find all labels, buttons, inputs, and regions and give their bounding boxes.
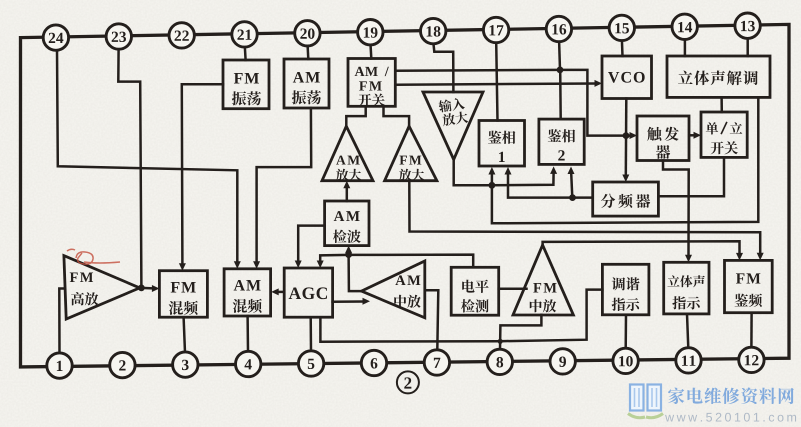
block phase detector 2 鉴相2 <box>539 119 584 164</box>
wire AGC to AM mixer <box>278 291 285 294</box>
junction dot J1 phase-detector common node <box>489 182 496 189</box>
wire pin17 to phase detector 1 top <box>496 42 497 121</box>
pin 11 <box>676 348 701 373</box>
pin 22 <box>169 23 194 48</box>
block AM oscillator AM振荡 <box>284 59 329 108</box>
figure number circled 2 <box>397 371 419 393</box>
pin 6 <box>361 350 386 375</box>
wire AGC to AM IF amp input <box>333 300 363 303</box>
wire phase detector 2 bottom-right down to divider line <box>571 173 572 198</box>
wire trigger to mono/stereo switch <box>689 134 694 137</box>
block tuning indicator 调谐指示 <box>602 264 649 315</box>
wire VCO bottom to frequency divider top <box>625 99 628 177</box>
wire pin15 to VCO top <box>621 40 624 56</box>
pin 24 <box>43 25 68 50</box>
wire AM mixer bottom to pin4 <box>246 316 249 352</box>
pin 4 <box>236 351 261 376</box>
outer border frame of IC <box>21 24 790 367</box>
block VCO <box>602 56 652 99</box>
wire AGC bottom to pin5 <box>309 317 312 351</box>
block frequency divider 分频器 <box>593 182 659 216</box>
pin 3 <box>173 352 198 377</box>
wire AM/FM switch bottom-left to AM amplifier apex <box>346 106 365 125</box>
wire AM IF amp output to AM detector bottom <box>349 255 362 292</box>
wire J1 to phase detector 2 bottom-left <box>492 173 554 186</box>
pin 12 <box>739 347 764 372</box>
wire FM amplifier base to FM discriminator top-right <box>409 181 760 254</box>
junction dot FM RF amp output <box>138 285 145 292</box>
wire pin24 to AM mixer top-left input <box>57 49 237 262</box>
red pen scribble annotation <box>67 249 120 264</box>
amplifier AM IF amp AM中放 (triangle left) <box>361 261 424 318</box>
junction dot on divider input line <box>569 194 576 201</box>
block FM oscillator FM振荡 <box>223 60 269 109</box>
junction dot VCO/trigger line <box>623 132 630 139</box>
block trigger 触发器 <box>637 116 689 161</box>
watermark url www.520101.com <box>665 413 796 422</box>
wire AM IF amp right to pin7 <box>425 290 439 350</box>
block stereo demodulator 立体声解调 <box>667 56 770 97</box>
pin 8 <box>487 349 512 374</box>
pin 9 <box>550 349 575 374</box>
wire FM IF amp apex to FM discriminator top-left <box>543 241 740 254</box>
pin 7 <box>424 350 449 375</box>
block AGC <box>284 268 332 317</box>
wire FM IF amp base to pin8 <box>500 315 541 350</box>
wire pin20 to AM oscillator top <box>306 45 309 59</box>
wire stereo demodulator to mono/stereo switch top <box>720 97 723 112</box>
wire pin18 to input amplifier top <box>433 43 453 92</box>
wire J1 down and right up to stereo demodulator bottom <box>492 97 758 223</box>
wire pin16 down to junction <box>558 41 561 70</box>
amplifier FM RF amp FM高放 (triangle right) <box>64 256 140 320</box>
pin 1 <box>47 353 72 378</box>
pin 15 <box>609 15 634 40</box>
wire AM detector left to AGC top-left <box>298 226 324 262</box>
wire AGC bottom to tuning indicator left (long) <box>320 290 602 342</box>
amplifier FM amplifier FM放大 (triangle up) <box>385 126 437 181</box>
wire pin19 to AM/FM switch top <box>369 44 372 59</box>
pin 16 <box>546 16 571 41</box>
pin 14 <box>672 14 697 39</box>
wire AM detector node to level detector top and AGC top <box>320 255 473 268</box>
junction dot pin8 line <box>498 339 503 344</box>
pin 2 <box>110 352 135 377</box>
pin 19 <box>358 20 383 45</box>
wire pin23 to FM RF amp output node <box>118 49 141 288</box>
block AM detector AM检波 <box>325 201 369 246</box>
wire FM RF amp output node to FM mixer input <box>141 287 152 290</box>
wire tuning indicator bottom to pin10 <box>624 315 627 349</box>
wire pin21 to FM oscillator top <box>244 46 247 60</box>
wire pin13 to stereo demodulator top <box>746 38 749 56</box>
pin 17 <box>483 17 508 42</box>
wire trigger bottom to stereo indicator top <box>663 161 689 256</box>
wire pin14 to stereo demodulator top <box>684 39 687 56</box>
junction dot pin16/switch/phase-det-2 <box>557 67 564 74</box>
block mono/stereo switch 单/立开关 <box>701 112 747 157</box>
wire AM detector top to AM amplifier base <box>346 188 349 201</box>
wire FM discriminator bottom to pin12 <box>750 313 753 348</box>
block level detector 电平检测 <box>451 267 499 315</box>
pin 23 <box>106 24 131 49</box>
pin 21 <box>232 22 257 47</box>
wire AM/FM switch bottom-right to FM amplifier apex <box>384 106 410 125</box>
amplifier FM IF amp FM中放 (triangle up) <box>513 245 573 315</box>
wire stereo indicator bottom to pin11 <box>687 314 688 348</box>
watermark book icon <box>628 385 663 418</box>
block AM/FM switch AM/FM开关 <box>348 59 395 107</box>
block AM mixer AM混频 <box>224 269 271 316</box>
wire junction down to phase detector 2 top <box>559 70 562 119</box>
wire FM oscillator to FM mixer top input <box>182 84 223 264</box>
wire FM mixer bottom to pin3 <box>184 317 185 352</box>
wire AM/FM switch lower output to VCO input <box>395 84 595 85</box>
wire phase detector 1 bottom-right to frequency divider left <box>508 173 593 198</box>
wire input amplifier apex down to J1 <box>454 158 492 185</box>
wire pin1 to FM RF amp input <box>59 289 65 354</box>
pin 10 <box>613 348 638 373</box>
wire mono/stereo switch bottom to frequency divider right <box>660 157 724 196</box>
wire AM/FM switch upper output to trigger (via junction) <box>395 70 630 136</box>
wire J1 up into phase detector 1 bottom-left <box>491 173 494 185</box>
wire AM oscillator to AM mixer top-right input <box>257 108 312 262</box>
block phase detector 1 鉴相1 <box>479 121 525 167</box>
block FM discriminator FM鉴频 <box>725 260 773 312</box>
watermark site name 家电维修资料网 <box>668 388 794 405</box>
pin 5 <box>298 351 323 376</box>
pin 13 <box>735 13 760 38</box>
pin 20 <box>295 21 320 46</box>
amplifier input amp 输入放大 (inverted triangle) <box>423 92 483 160</box>
block stereo indicator 立体声指示 <box>664 262 709 314</box>
block FM mixer FM混频 <box>159 271 207 318</box>
amplifier AM amplifier AM放大 (triangle up) <box>322 126 373 181</box>
wire level detector to FM IF amp input <box>499 288 527 291</box>
pin 18 <box>421 18 446 43</box>
